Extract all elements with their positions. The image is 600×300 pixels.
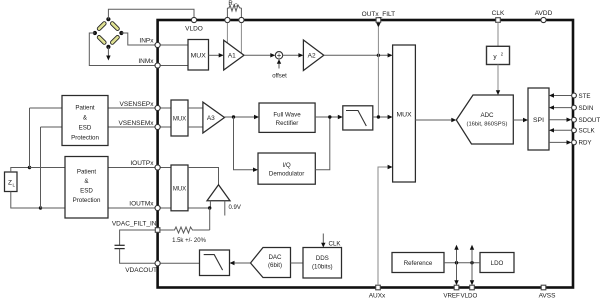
pin STE [572, 93, 591, 100]
svg-text:MUX: MUX [173, 117, 186, 123]
I/Q demodulator block [258, 153, 315, 184]
multiplexer MUX2 [171, 100, 188, 136]
junction A3 output [232, 115, 235, 118]
wire divider to ADC [496, 65, 500, 96]
svg-text:offset: offset [272, 74, 287, 80]
ADC block [456, 95, 513, 144]
wire ZL bottom to node B [11, 192, 41, 209]
wire rectifier to filter1 [315, 115, 343, 119]
junction A2 row / OUTx_FILT [377, 54, 380, 57]
multiplexer MUX4 [171, 165, 188, 211]
wire A1 to offset summer [244, 53, 275, 57]
svg-text:Patient: Patient [77, 169, 97, 176]
svg-text:VLDO: VLDO [460, 293, 477, 300]
wire buffer input to IOUTMx node [209, 201, 211, 208]
VLDO bidirectional arrow [470, 245, 474, 285]
wire summer to A2 [283, 53, 304, 57]
pin VDAC_FILT_IN (square) [112, 221, 160, 233]
clock divider block y [487, 46, 510, 64]
pin INPx [139, 38, 160, 48]
pin AVSS (bottom square) [539, 285, 557, 299]
pin RG2 [239, 17, 244, 22]
pin VDACOUT [125, 261, 160, 274]
wire DDS to DAC [291, 262, 304, 264]
svg-text:RDY: RDY [579, 140, 592, 147]
svg-text:SDOUT: SDOUT [579, 117, 600, 124]
svg-text:A3: A3 [207, 115, 215, 122]
svg-text:VSENSEPx: VSENSEPx [120, 101, 155, 108]
svg-text:SPI: SPI [533, 117, 544, 124]
LDO block [480, 253, 514, 273]
svg-text:DAC: DAC [268, 254, 282, 261]
wire buffer output to MUX4 [188, 168, 219, 185]
svg-text:R: R [228, 1, 233, 7]
svg-text:(16bit, 860SPS): (16bit, 860SPS) [467, 122, 508, 128]
wire INMx to MUX1 [160, 65, 188, 67]
svg-text:Full Wave: Full Wave [273, 112, 301, 119]
wire resistor up to buffer node [209, 208, 211, 230]
multiplexer MUX1 [188, 40, 209, 71]
svg-text:AVSS: AVSS [539, 293, 557, 300]
svg-text:STE: STE [579, 93, 591, 100]
wire RG1 internal to A1 [226, 23, 228, 44]
svg-text:Z: Z [8, 180, 12, 187]
svg-text:(10bits): (10bits) [312, 264, 333, 271]
svg-text:I/Q: I/Q [282, 162, 290, 169]
wire SPI to RDY [549, 140, 572, 144]
pin SDIN [572, 105, 594, 112]
pin AVDD [535, 10, 553, 23]
junction filter row / OUTx_FILT [377, 115, 380, 118]
pin SDOUT [572, 117, 600, 124]
wire STE to SPI [549, 93, 572, 97]
pin IOUTMx [129, 201, 160, 211]
svg-text:OUTx_FILT: OUTx_FILT [362, 11, 395, 18]
svg-text:ESD: ESD [79, 125, 92, 132]
junction rectifier/demodulator [328, 115, 331, 118]
svg-text:SCLK: SCLK [579, 128, 596, 135]
svg-text:INMx: INMx [138, 58, 154, 65]
summing node with offset [275, 51, 282, 60]
wire electrode1 vertical [29, 108, 31, 168]
patient ESD protection block 1 [62, 96, 108, 146]
wire electrode2 vertical [40, 127, 42, 208]
DDS block (10bits) [303, 248, 342, 279]
junction buffer/IOUTMx/resistor [208, 206, 211, 209]
svg-text:+: + [277, 51, 282, 60]
wire A2 to MUX3 [324, 53, 393, 57]
pin VLDO bottom (square) [460, 285, 477, 299]
offset input arrow [272, 59, 287, 79]
pin VLDO (top) [185, 17, 203, 32]
wire VSENSEPx row [30, 107, 172, 109]
op-amp A1 [224, 40, 244, 70]
wire INPx to MUX1 [160, 44, 188, 46]
svg-text:Reference: Reference [404, 260, 433, 267]
wire A3 output to rectifier [225, 115, 260, 119]
SPI block [528, 88, 549, 150]
chip boundary (AFE outline) [158, 20, 573, 288]
resistor RG [227, 1, 241, 17]
svg-text:ADC: ADC [480, 112, 494, 119]
svg-text:VREF: VREF [443, 293, 460, 300]
svg-text:CLK: CLK [329, 241, 342, 248]
svg-text:IOUTPx: IOUTPx [130, 160, 154, 167]
svg-text:G: G [234, 3, 238, 8]
DAC block (6bit) [251, 248, 291, 278]
wire AUXx to MUX3 [378, 165, 393, 285]
svg-text:Patient: Patient [75, 105, 95, 112]
wire VDACOUT to filter2 [160, 262, 199, 264]
VREF bidirectional arrow [454, 245, 458, 285]
junction VREF [455, 261, 458, 264]
impedance ZL box [5, 172, 18, 192]
wire ZL top to node A [11, 168, 30, 173]
wire A3 to demodulator [234, 117, 259, 172]
pin AUXx (bottom square) [369, 285, 386, 299]
wire SCLK to SPI [549, 128, 572, 132]
wire DAC to filter2 [230, 261, 251, 265]
svg-text:VLDO: VLDO [185, 26, 203, 33]
resistor 1.5k internal [160, 227, 210, 244]
svg-text:VDACOUT: VDACOUT [125, 267, 157, 274]
svg-text:Demodulator: Demodulator [269, 171, 304, 178]
wire SPI to SDOUT [549, 118, 572, 122]
buffer amplifier (current source) [207, 185, 230, 201]
svg-text:MUX: MUX [396, 111, 412, 118]
svg-text:AVDD: AVDD [535, 10, 553, 17]
wire filter1 to MUX3 [373, 115, 393, 119]
wire MUX3 to ADC [415, 118, 456, 122]
node A junction [28, 166, 31, 169]
junction VLDO [470, 261, 473, 264]
svg-text:MUX: MUX [173, 186, 186, 192]
wire RG2 internal to A1 [240, 23, 242, 54]
low-pass filter block F2 [200, 250, 230, 276]
pin CLK (top square) [492, 10, 505, 22]
low-pass filter block F1 [343, 106, 373, 130]
full wave rectifier block [259, 103, 315, 132]
pin VSENSEPx [120, 101, 161, 111]
wire SDIN to SPI [549, 105, 572, 109]
op-amp A3 [203, 102, 225, 133]
svg-text:Rectifier: Rectifier [276, 120, 299, 127]
pin RG1 [225, 17, 230, 22]
strain-gauge bridge sensor [93, 17, 124, 49]
wires MUX2 to A3 [188, 108, 203, 127]
wire ADC to SPI [513, 118, 528, 122]
svg-text:Protection: Protection [71, 135, 99, 142]
wire bridge left to INMx [89, 33, 155, 66]
pin INMx [138, 58, 160, 68]
svg-text:1.5k +/- 20%: 1.5k +/- 20% [172, 238, 207, 244]
svg-text:VSENSEMx: VSENSEMx [118, 120, 154, 127]
svg-text:CLK: CLK [492, 10, 505, 17]
pin IOUTPx [130, 160, 160, 170]
pin VREF (bottom square) [443, 285, 460, 299]
patient ESD protection block 2 [65, 157, 108, 219]
op-amp A2 [303, 40, 323, 71]
svg-text:(6bit): (6bit) [268, 262, 282, 269]
svg-text:AUXx: AUXx [369, 293, 386, 300]
svg-text:INPx: INPx [139, 38, 154, 45]
CLK arrow into DDS [321, 234, 341, 248]
pin RDY [572, 140, 592, 147]
svg-text:0.9V: 0.9V [229, 205, 241, 211]
node B junction [39, 206, 42, 209]
svg-text:LDO: LDO [491, 260, 504, 267]
wire VSENSEMx row [41, 126, 172, 128]
pin SCLK [572, 128, 596, 135]
wire reference to LDO [444, 262, 480, 264]
external capacitor [115, 230, 156, 263]
wire CLK to divider [497, 22, 499, 46]
multiplexer MUX3 (ADC input mux) [393, 45, 416, 182]
pin OUTx_FILT (top square) [362, 11, 395, 22]
svg-text:Protection: Protection [73, 197, 101, 204]
svg-text:SDIN: SDIN [579, 105, 594, 112]
wire IOUTPx row [30, 167, 172, 169]
wire IOUTMx row [41, 207, 210, 209]
wire MUX1 to A1 [209, 53, 224, 57]
svg-text:A2: A2 [308, 53, 316, 60]
0.9V bias stub [225, 201, 241, 216]
wire bridge right to INPx [121, 33, 154, 45]
svg-text:ESD: ESD [80, 188, 93, 195]
wire OUTx_FILT vertical with down arrow [376, 23, 380, 117]
wire bridge top to VLDO pin [108, 9, 194, 19]
svg-text:A1: A1 [228, 53, 236, 60]
bridge excitation arrow (down) [106, 47, 110, 61]
pin VSENSEMx [118, 120, 160, 130]
svg-text:MUX: MUX [191, 52, 207, 59]
svg-text:VDAC_FILT_IN: VDAC_FILT_IN [112, 221, 157, 228]
svg-text:IOUTMx: IOUTMx [129, 201, 154, 208]
svg-text:DDS: DDS [316, 255, 329, 262]
reference block [392, 253, 444, 273]
wire demodulator up to filter node [315, 117, 330, 170]
